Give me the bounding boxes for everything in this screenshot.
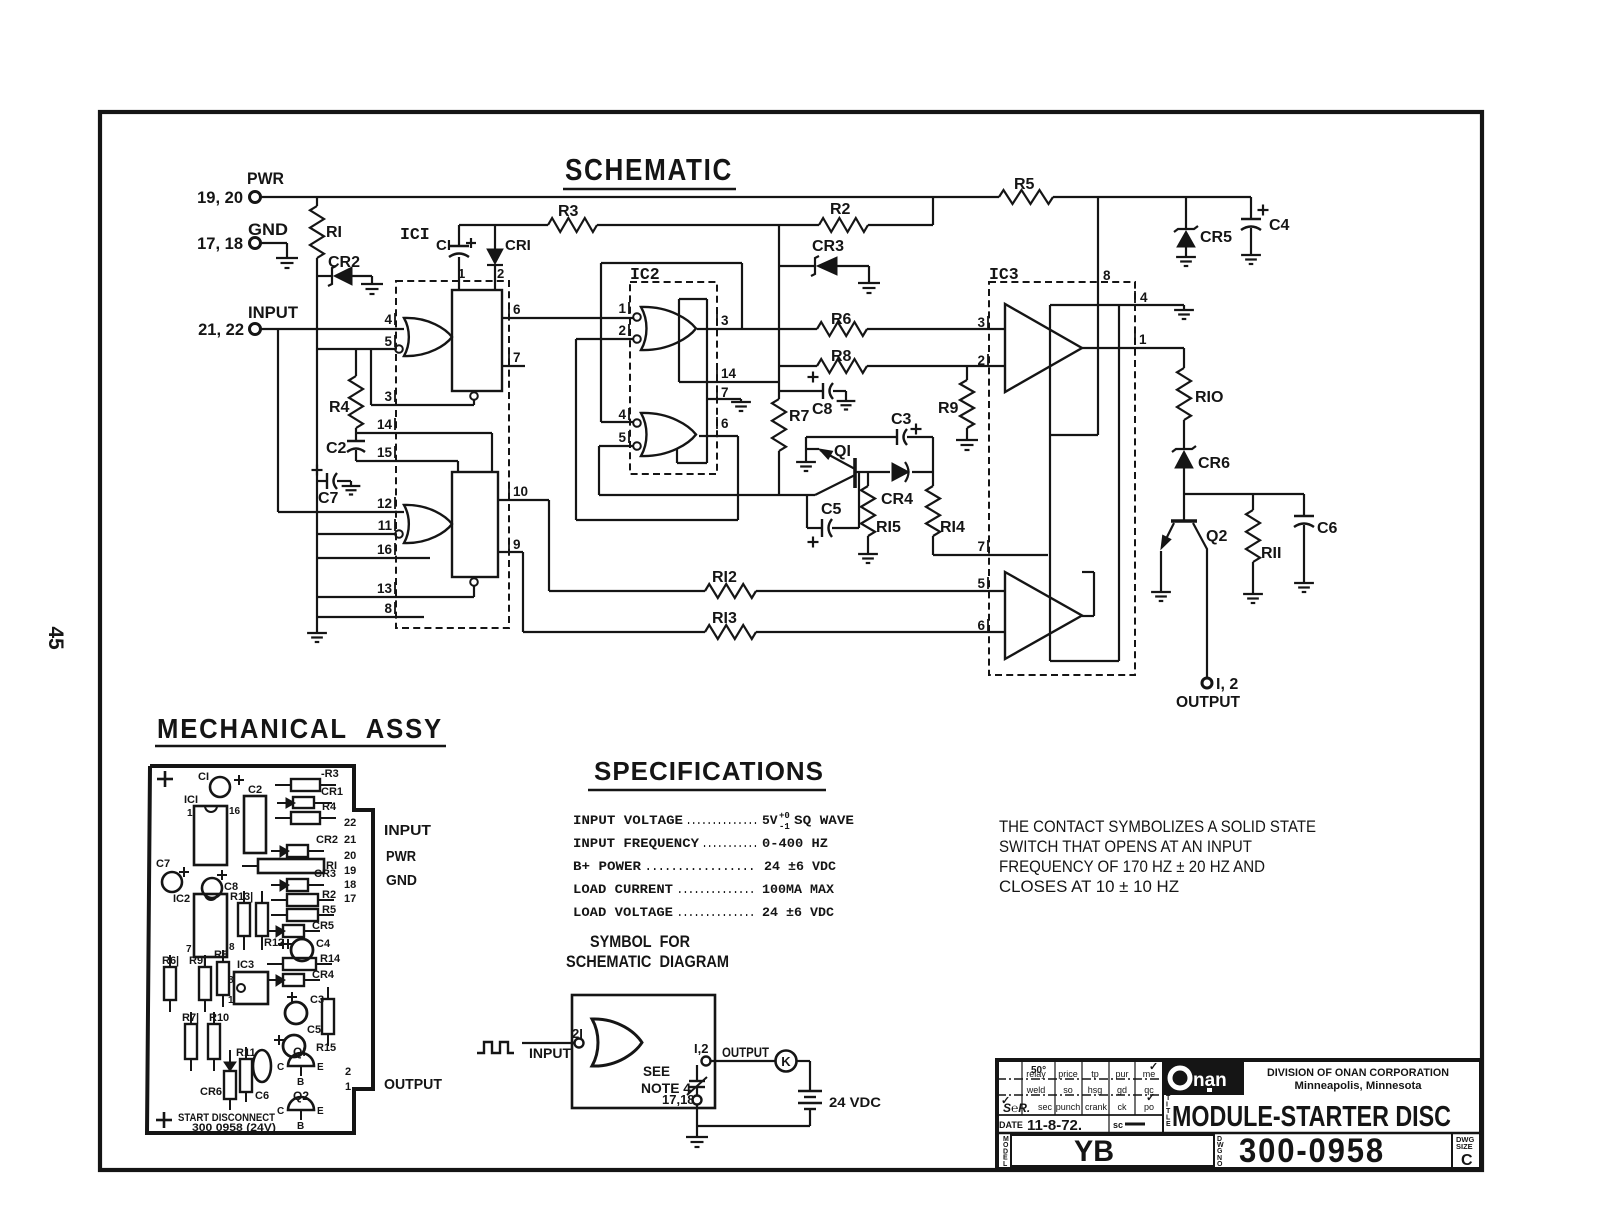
svg-text:24 ±6 VDC: 24 ±6 VDC xyxy=(764,859,836,874)
svg-text:C3: C3 xyxy=(891,411,912,428)
terminal OUTPUT 1,2 xyxy=(1202,678,1212,688)
capacitor C8 xyxy=(808,376,819,378)
svg-text:LOAD VOLTAGE: LOAD VOLTAGE xyxy=(573,905,673,920)
svg-text:RIO: RIO xyxy=(1195,389,1223,406)
wire small loop over gate xyxy=(678,299,680,382)
pcb diode CR2 xyxy=(271,850,287,852)
svg-text:2: 2 xyxy=(345,1066,351,1078)
svg-text:R6: R6 xyxy=(831,311,852,328)
svg-text:IC3: IC3 xyxy=(237,959,254,971)
svg-text:TITLE: TITLE xyxy=(1166,1095,1171,1128)
svg-text:R2: R2 xyxy=(830,201,851,218)
pcb resistor R1 xyxy=(258,859,324,873)
ground at C4 xyxy=(1241,254,1261,256)
svg-text:8: 8 xyxy=(384,601,392,616)
svg-text:5V: 5V xyxy=(762,813,778,828)
svg-text:3: 3 xyxy=(721,313,729,328)
svg-text:SYMBOL FOR: SYMBOL FOR xyxy=(590,932,690,951)
svg-text:R9: R9 xyxy=(938,400,959,417)
symbol output wire xyxy=(711,1060,775,1062)
svg-text:300 0958 (24V): 300 0958 (24V) xyxy=(192,1122,276,1134)
wire pin 14 IC2 xyxy=(716,367,718,379)
svg-text:7: 7 xyxy=(721,385,729,400)
svg-text:C4: C4 xyxy=(316,938,331,950)
svg-text:DIVISION OF ONAN CORPORATION: DIVISION OF ONAN CORPORATION xyxy=(1267,1067,1449,1079)
svg-text:...........: ........... xyxy=(702,836,758,851)
svg-text:C7: C7 xyxy=(318,490,339,507)
wire PWR rail xyxy=(261,196,999,198)
ground at IC2 pin7 xyxy=(731,401,751,403)
ground at CR3 xyxy=(858,282,880,284)
svg-text:R15: R15 xyxy=(316,1042,336,1054)
svg-text:C2: C2 xyxy=(326,440,347,457)
pcb diode CR1 xyxy=(277,802,293,804)
svg-text:MODULE-STARTER DISC: MODULE-STARTER DISC xyxy=(1172,1101,1451,1133)
wire K to battery xyxy=(797,1060,810,1062)
pin 6 label IC2 xyxy=(716,417,718,429)
pcb resistor R14 xyxy=(267,963,283,965)
svg-text:E: E xyxy=(317,1106,324,1117)
svg-text:0-400 HZ: 0-400 HZ xyxy=(762,836,828,851)
svg-text:R5: R5 xyxy=(1014,176,1035,193)
wire R13 line xyxy=(523,631,705,633)
wire C3 to R14 vertical xyxy=(932,437,934,472)
pcb capacitor C5 xyxy=(274,1039,284,1041)
ground at pin4 xyxy=(1174,309,1194,311)
svg-text:SQ WAVE: SQ WAVE xyxy=(794,813,854,828)
symbol OR gate xyxy=(592,1019,642,1066)
svg-text:2: 2 xyxy=(618,323,626,338)
svg-text:YB: YB xyxy=(1074,1135,1114,1168)
svg-text:Minneapolis, Minnesota: Minneapolis, Minnesota xyxy=(1295,1080,1423,1092)
ground at R9 xyxy=(956,439,978,441)
pcb capacitor C4 xyxy=(283,943,293,945)
gate G1 IC1 upper NOR xyxy=(404,318,452,356)
svg-text:nan: nan xyxy=(1193,1070,1227,1091)
svg-text:17: 17 xyxy=(344,893,356,905)
svg-text:2I: 2I xyxy=(572,1026,583,1041)
svg-text:R14: R14 xyxy=(320,953,341,965)
svg-text:CR3: CR3 xyxy=(314,868,336,880)
battery 24 VDC xyxy=(798,1090,822,1093)
svg-text:8: 8 xyxy=(228,975,234,986)
svg-text:R8: R8 xyxy=(831,348,852,365)
svg-text:me: me xyxy=(1143,1069,1156,1079)
svg-text:IC2: IC2 xyxy=(173,893,190,905)
svg-text:SCHEMATIC: SCHEMATIC xyxy=(565,152,733,187)
vertical DWG NO label xyxy=(1213,1133,1215,1169)
symbol square wave xyxy=(477,1042,514,1053)
pcb resistor R2 xyxy=(271,899,287,901)
svg-text:R13|: R13| xyxy=(230,891,253,903)
ground at R11 xyxy=(1243,593,1263,595)
svg-text:C: C xyxy=(277,1062,284,1073)
svg-text:1: 1 xyxy=(1139,332,1147,347)
wire Q1 collector line xyxy=(599,494,815,496)
model cell box xyxy=(1011,1135,1214,1166)
svg-text:R4: R4 xyxy=(322,801,337,813)
svg-text:FREQUENCY OF 170 HZ ± 20 HZ AN: FREQUENCY OF 170 HZ ± 20 HZ AND xyxy=(999,858,1265,876)
svg-text:C: C xyxy=(277,1106,284,1117)
ground at Q2 emitter xyxy=(1151,591,1171,593)
svg-text:RI5: RI5 xyxy=(876,519,901,536)
svg-text:I,2: I,2 xyxy=(694,1041,708,1056)
svg-text:CR3: CR3 xyxy=(812,238,844,255)
svg-text:22: 22 xyxy=(344,817,356,829)
svg-text:CR5: CR5 xyxy=(312,920,334,932)
wire gate2 output loop xyxy=(676,449,678,463)
svg-text:SEE: SEE xyxy=(643,1064,670,1079)
svg-text:..............: .............. xyxy=(686,813,758,828)
ground at pin8 xyxy=(307,632,327,634)
svg-text:4: 4 xyxy=(384,312,392,327)
dwg size cell xyxy=(1451,1133,1453,1169)
svg-text:7: 7 xyxy=(186,944,192,955)
pcb diode CR5 xyxy=(267,930,283,932)
svg-text:16: 16 xyxy=(229,806,241,817)
grid row labels xyxy=(999,1061,1158,1134)
svg-text:CRI: CRI xyxy=(505,237,531,254)
svg-text:11: 11 xyxy=(378,518,393,533)
svg-text:CI: CI xyxy=(436,237,451,254)
pin 3 label IC2 xyxy=(716,314,718,326)
svg-text:14: 14 xyxy=(721,366,737,381)
wire output 1 xyxy=(1134,333,1136,345)
ground at C6 xyxy=(1294,582,1314,584)
svg-text:5: 5 xyxy=(384,334,392,349)
wire GND lead xyxy=(261,242,287,244)
svg-text:RI2: RI2 xyxy=(712,569,737,586)
svg-text:17, 18: 17, 18 xyxy=(197,235,243,253)
svg-text:R5: R5 xyxy=(322,904,336,916)
svg-text:crank: crank xyxy=(1085,1102,1108,1112)
wire long vertical node xyxy=(778,225,780,399)
wire pin5 from node xyxy=(317,348,395,350)
gate G3 IC2 upper NOR xyxy=(641,307,696,350)
wire INPUT to IC1 pin 4 xyxy=(261,328,404,330)
wire IC1 pin6 to IC2 pin1 xyxy=(508,303,510,315)
svg-text:9: 9 xyxy=(513,537,521,552)
wire INPUT branch to pin 12 xyxy=(277,329,279,512)
op-amp A1 IC3 upper xyxy=(1005,304,1082,392)
svg-text:Q2: Q2 xyxy=(1206,528,1227,545)
svg-text:SPECIFICATIONS: SPECIFICATIONS xyxy=(594,756,824,786)
svg-text:weld: weld xyxy=(1026,1085,1046,1095)
symbol box xyxy=(572,995,715,1108)
gate G4 IC2 lower NOR xyxy=(641,413,696,456)
svg-text:C8: C8 xyxy=(812,401,833,418)
svg-text:RII: RII xyxy=(1261,545,1281,562)
svg-text:gd: gd xyxy=(1117,1085,1127,1095)
svg-text:R4: R4 xyxy=(329,399,350,416)
svg-text:C: C xyxy=(1461,1152,1473,1169)
wire A2 output loop xyxy=(1082,571,1094,573)
svg-text:18: 18 xyxy=(344,879,356,891)
svg-text:SWITCH THAT OPENS AT AN INPUT: SWITCH THAT OPENS AT AN INPUT xyxy=(999,838,1252,856)
svg-text:I, 2: I, 2 xyxy=(1216,676,1238,693)
svg-text:tp: tp xyxy=(1091,1069,1099,1079)
svg-text:1: 1 xyxy=(618,301,626,316)
svg-text:C2: C2 xyxy=(248,784,262,796)
svg-text:po: po xyxy=(1144,1102,1154,1112)
svg-text:CR1: CR1 xyxy=(321,786,343,798)
svg-text:relay: relay xyxy=(1026,1069,1046,1079)
svg-text:CR4: CR4 xyxy=(312,969,335,981)
wire pin5 IC2 xyxy=(599,445,633,447)
svg-text:CLOSES AT 10 ± 10 HZ: CLOSES AT 10 ± 10 HZ xyxy=(999,878,1179,896)
svg-text:OUTPUT: OUTPUT xyxy=(384,1076,442,1093)
corner plus marks xyxy=(157,778,173,781)
svg-text:MECHANICAL ASSY: MECHANICAL ASSY xyxy=(157,713,443,744)
IC1 lower bubble pin13 xyxy=(470,578,478,586)
svg-text:19: 19 xyxy=(344,865,356,877)
svg-text:C7: C7 xyxy=(156,858,170,870)
svg-text:C6: C6 xyxy=(1317,520,1338,537)
wire R6 line to IC3 pin3 xyxy=(779,328,817,330)
wire pin 7 IC2 xyxy=(716,386,718,398)
svg-text:hsg: hsg xyxy=(1088,1085,1103,1095)
svg-text:C5: C5 xyxy=(307,1024,321,1036)
svg-text:14: 14 xyxy=(377,417,393,432)
svg-text:2: 2 xyxy=(977,353,985,368)
svg-text:3: 3 xyxy=(977,315,985,330)
wire collector node xyxy=(1184,493,1304,495)
svg-text:300-0958: 300-0958 xyxy=(1239,1132,1385,1170)
svg-text:17,18: 17,18 xyxy=(662,1092,695,1107)
svg-text:1: 1 xyxy=(458,266,465,281)
symbol input wire xyxy=(522,1042,574,1044)
wire pin11 xyxy=(317,533,395,535)
svg-text:OUTPUT: OUTPUT xyxy=(722,1044,769,1060)
wire R3-R2 line xyxy=(459,224,548,226)
pcb resistor R3 xyxy=(275,784,291,786)
svg-text:45: 45 xyxy=(44,626,67,650)
ground at CR5 xyxy=(1176,256,1196,258)
svg-text:100MA MAX: 100MA MAX xyxy=(762,882,834,897)
IC1 output bubble pin3 xyxy=(470,392,478,400)
svg-text:CR5: CR5 xyxy=(1200,229,1232,246)
svg-text:R2: R2 xyxy=(322,889,336,901)
IC1 lower body box xyxy=(452,472,498,577)
wire pin 10 to R12 xyxy=(508,485,510,497)
svg-text:R8: R8 xyxy=(214,949,228,961)
svg-text:R7: R7 xyxy=(789,408,810,425)
pcb resistor R12 xyxy=(256,903,268,936)
Onan logo xyxy=(1163,1061,1244,1095)
svg-text:INPUT FREQUENCY: INPUT FREQUENCY xyxy=(573,836,699,851)
ground at GND terminal xyxy=(276,257,298,259)
svg-text:20: 20 xyxy=(344,850,356,862)
svg-text:3: 3 xyxy=(384,389,392,404)
svg-text:price: price xyxy=(1058,1069,1078,1079)
svg-text:CR6: CR6 xyxy=(200,1086,222,1098)
title block frame xyxy=(997,1060,1481,1169)
svg-text:CI: CI xyxy=(198,771,209,783)
svg-text:6: 6 xyxy=(513,302,521,317)
svg-text:E: E xyxy=(317,1062,324,1073)
svg-text:4: 4 xyxy=(618,407,626,422)
svg-text:C4: C4 xyxy=(1269,217,1290,234)
gate G2 IC1 lower NOR xyxy=(404,505,452,543)
svg-text:GND: GND xyxy=(386,872,417,889)
wire node B+ vertical xyxy=(316,276,318,349)
svg-text:10: 10 xyxy=(513,484,528,499)
wire pin 4 to ground xyxy=(1134,291,1136,303)
svg-text:21, 22: 21, 22 xyxy=(198,321,244,339)
svg-text:8: 8 xyxy=(229,942,235,953)
wire pin 9 to R13 xyxy=(508,538,510,550)
svg-text:CR2: CR2 xyxy=(316,834,338,846)
svg-text:5: 5 xyxy=(618,430,626,445)
pin 7 stub IC1 xyxy=(508,351,510,363)
svg-text:6: 6 xyxy=(721,416,729,431)
op-amp A2 IC3 lower xyxy=(1005,572,1082,659)
svg-text:INPUT: INPUT xyxy=(248,304,298,322)
wire feedback A top xyxy=(741,263,743,329)
svg-text:-R3: -R3 xyxy=(321,768,339,780)
svg-text:K: K xyxy=(781,1054,791,1069)
pcb resistor R5 xyxy=(271,914,287,916)
svg-text:B+ POWER: B+ POWER xyxy=(573,859,641,874)
ground at symbol xyxy=(686,1136,708,1138)
svg-text:ck: ck xyxy=(1118,1102,1128,1112)
svg-text:4: 4 xyxy=(1140,290,1148,305)
svg-text:16: 16 xyxy=(377,542,393,557)
svg-text:1: 1 xyxy=(228,995,234,1006)
svg-text:..............: .............. xyxy=(677,882,755,897)
ground at Q1 emitter xyxy=(796,461,816,463)
svg-text:so: so xyxy=(1063,1085,1073,1095)
wire IC3 internal rect xyxy=(1049,305,1051,661)
svg-text:6: 6 xyxy=(977,618,985,633)
svg-text:24 VDC: 24 VDC xyxy=(829,1094,881,1110)
pcb diode CR3 xyxy=(271,884,287,886)
svg-text:sec: sec xyxy=(1038,1102,1053,1112)
svg-text:RI3: RI3 xyxy=(712,610,737,627)
svg-text:sc: sc xyxy=(1113,1120,1123,1130)
svg-text:1: 1 xyxy=(345,1081,351,1093)
ground at C7 xyxy=(342,485,361,487)
svg-text:RI4: RI4 xyxy=(940,519,965,536)
ground at C8 xyxy=(837,400,856,402)
title block grid xyxy=(997,1094,1163,1096)
svg-text:CR6: CR6 xyxy=(1198,455,1230,472)
wire Q1 base line xyxy=(856,471,890,473)
svg-text:+0: +0 xyxy=(779,811,790,821)
wire pin2 feedback B xyxy=(576,338,633,340)
svg-text:CR4: CR4 xyxy=(881,491,913,508)
svg-text:7: 7 xyxy=(513,350,521,365)
svg-text:.................: ................. xyxy=(645,859,755,874)
contact symbol xyxy=(696,1065,698,1081)
svg-text:C5: C5 xyxy=(821,501,842,518)
svg-text:THE CONTACT SYMBOLIZES A SOLID: THE CONTACT SYMBOLIZES A SOLID STATE xyxy=(999,818,1316,836)
svg-text:INPUT VOLTAGE: INPUT VOLTAGE xyxy=(573,813,683,828)
svg-text:SCHEMATIC DIAGRAM: SCHEMATIC DIAGRAM xyxy=(566,952,729,971)
svg-text:..............: .............. xyxy=(677,905,755,920)
pcb resistor R15 xyxy=(322,999,334,1034)
ground at CR2 xyxy=(361,283,383,285)
svg-text:OUTPUT: OUTPUT xyxy=(1176,694,1240,711)
svg-text:15: 15 xyxy=(377,445,393,460)
svg-text:12: 12 xyxy=(377,496,392,511)
svg-text:5: 5 xyxy=(977,576,985,591)
svg-text:DATE: DATE xyxy=(999,1120,1023,1130)
svg-text:ICI: ICI xyxy=(400,225,430,244)
svg-text:INPUT: INPUT xyxy=(384,822,431,839)
svg-text:ICI: ICI xyxy=(184,794,198,806)
svg-text:R10: R10 xyxy=(209,1012,229,1024)
svg-text:11-8-72.: 11-8-72. xyxy=(1027,1117,1082,1134)
svg-text:C6: C6 xyxy=(255,1090,269,1102)
svg-text:19, 20: 19, 20 xyxy=(197,189,243,207)
svg-text:PWR: PWR xyxy=(247,170,284,188)
ground at R15 xyxy=(858,553,878,555)
pcb capacitor C8 xyxy=(202,878,222,898)
svg-text:SIZE: SIZE xyxy=(1456,1142,1473,1151)
wire pin3 drop xyxy=(370,349,372,405)
wire R12 line xyxy=(549,590,705,592)
svg-text:24 ±6 VDC: 24 ±6 VDC xyxy=(762,905,834,920)
svg-text:PWR: PWR xyxy=(386,848,416,865)
svg-text:2: 2 xyxy=(497,266,504,281)
relay coil K xyxy=(776,1051,797,1072)
svg-text:QI: QI xyxy=(834,443,851,460)
pcb resistor R4 xyxy=(275,817,291,819)
svg-text:B: B xyxy=(297,1077,304,1088)
svg-text:R9|: R9| xyxy=(189,955,206,967)
IC1 upper body box xyxy=(452,290,502,391)
svg-text:pur: pur xyxy=(1115,1069,1128,1079)
svg-text:1: 1 xyxy=(187,808,193,819)
svg-text:punch: punch xyxy=(1056,1102,1081,1112)
pcb capacitor C6 xyxy=(253,1050,271,1082)
svg-text:21: 21 xyxy=(344,834,356,846)
svg-text:LOAD CURRENT: LOAD CURRENT xyxy=(573,882,673,897)
wire R8 line to IC3 pin2 xyxy=(779,365,817,367)
svg-text:13: 13 xyxy=(377,581,393,596)
wire IC2 output3 line xyxy=(697,328,779,330)
svg-text:RI: RI xyxy=(326,224,342,241)
pcb capacitor C3 xyxy=(287,996,297,998)
svg-text:S℮R.: S℮R. xyxy=(1003,1101,1030,1115)
svg-text:INPUT: INPUT xyxy=(529,1045,571,1061)
svg-text:B: B xyxy=(297,1121,304,1132)
svg-text:7: 7 xyxy=(977,539,985,554)
PCB board outline xyxy=(147,766,373,1133)
svg-text:8: 8 xyxy=(1103,268,1111,283)
pcb diode CR4 xyxy=(267,979,283,981)
svg-text:-1: -1 xyxy=(779,822,790,832)
drawing border frame xyxy=(100,112,1482,1170)
